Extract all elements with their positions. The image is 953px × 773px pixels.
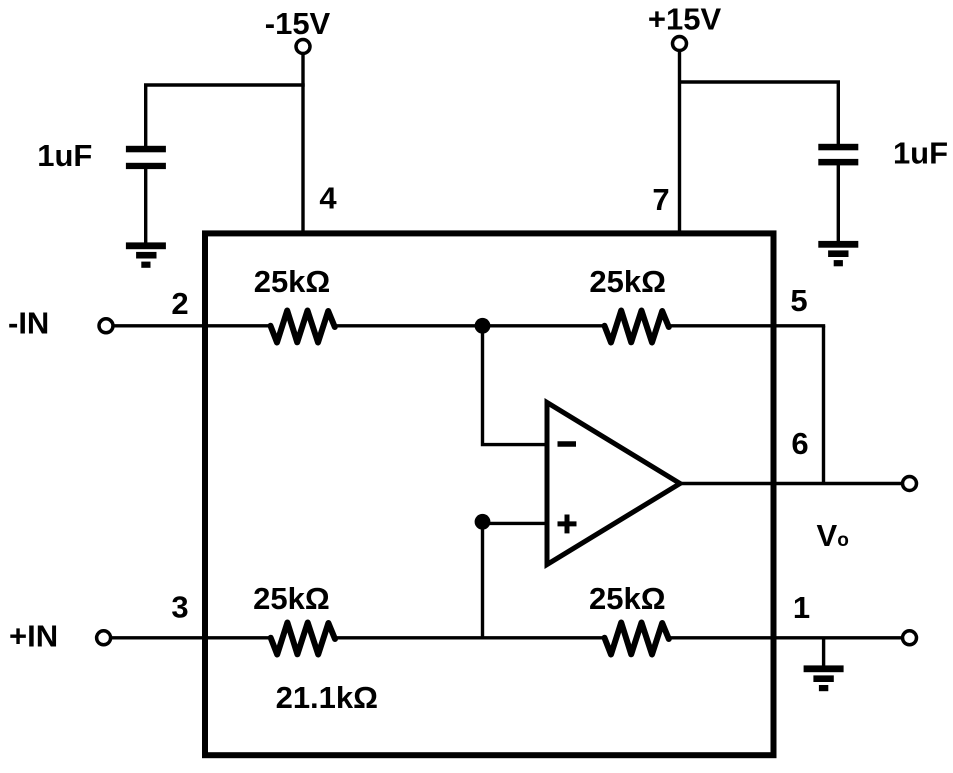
wire -15V horizontal to C1 [144,83,305,86]
capacitor C2 [818,144,858,166]
wire R2 to pin 5 [668,324,826,327]
junction node A [475,318,491,334]
wire pin 5 feedback vertical [822,326,825,484]
terminal pin 1 [903,631,917,645]
svg-text:1uF: 1uF [37,138,92,173]
junction node B [475,514,491,530]
svg-text:4: 4 [319,181,337,216]
wire output pin 6 [680,482,903,485]
svg-text:5: 5 [790,283,807,318]
wire -IN to R1 [113,324,272,327]
resistor R2 [605,311,669,343]
ground under C1 [126,242,166,267]
svg-text:+15V: +15V [648,2,722,37]
wire node B to non-inverting input [483,522,548,525]
resistor R4 [605,623,669,655]
svg-text:2: 2 [171,286,188,321]
svg-text:3: 3 [171,590,188,625]
svg-text:21.1kΩ: 21.1kΩ [276,680,378,715]
terminal +IN [97,631,111,645]
wire R4 to pin 1 terminal [668,636,903,639]
wire C2 top lead [837,82,840,145]
wire +15V horizontal to C2 [680,80,841,83]
capacitor C1 [126,146,166,169]
ground under C2 [818,241,858,266]
wire C2 bottom lead [837,165,840,244]
wire R1 to R2 [334,324,607,327]
wire R3 to R4 [334,636,607,639]
wire +15V vertical to pin 7 [678,51,681,237]
terminal -15V [296,40,310,54]
wire ground stub at pin 1 [822,638,825,668]
svg-text:7: 7 [652,182,669,217]
svg-text:1: 1 [793,590,810,625]
svg-text:25kΩ: 25kΩ [253,581,330,616]
terminal -IN [99,319,113,333]
svg-text:+IN: +IN [9,618,58,653]
wire -15V vertical to pin 4 [301,54,304,237]
svg-text:25kΩ: 25kΩ [589,264,666,299]
wire node B down to +IN rail [481,522,484,639]
resistor R1 [271,311,335,343]
op-amp A1 [547,403,680,565]
wire C1 top lead [144,85,147,147]
svg-text:Vo: Vo [817,518,849,553]
op-amp minus sign [558,441,577,447]
wire +IN to R3 [111,636,272,639]
svg-text:25kΩ: 25kΩ [589,581,666,616]
IC body U1 [205,233,774,755]
wire C1 bottom lead [144,169,147,246]
ground at output return [804,665,844,691]
terminal +15V [673,37,687,51]
terminal Vo [903,477,917,491]
svg-text:1uF: 1uF [893,136,948,171]
resistor R3 [271,623,335,655]
svg-text:-15V: -15V [265,6,331,41]
svg-text:-IN: -IN [8,306,49,341]
svg-text:25kΩ: 25kΩ [254,264,331,299]
svg-text:6: 6 [791,426,808,461]
wire node A to inverting input [483,327,548,445]
op-amp plus sign [558,515,577,534]
